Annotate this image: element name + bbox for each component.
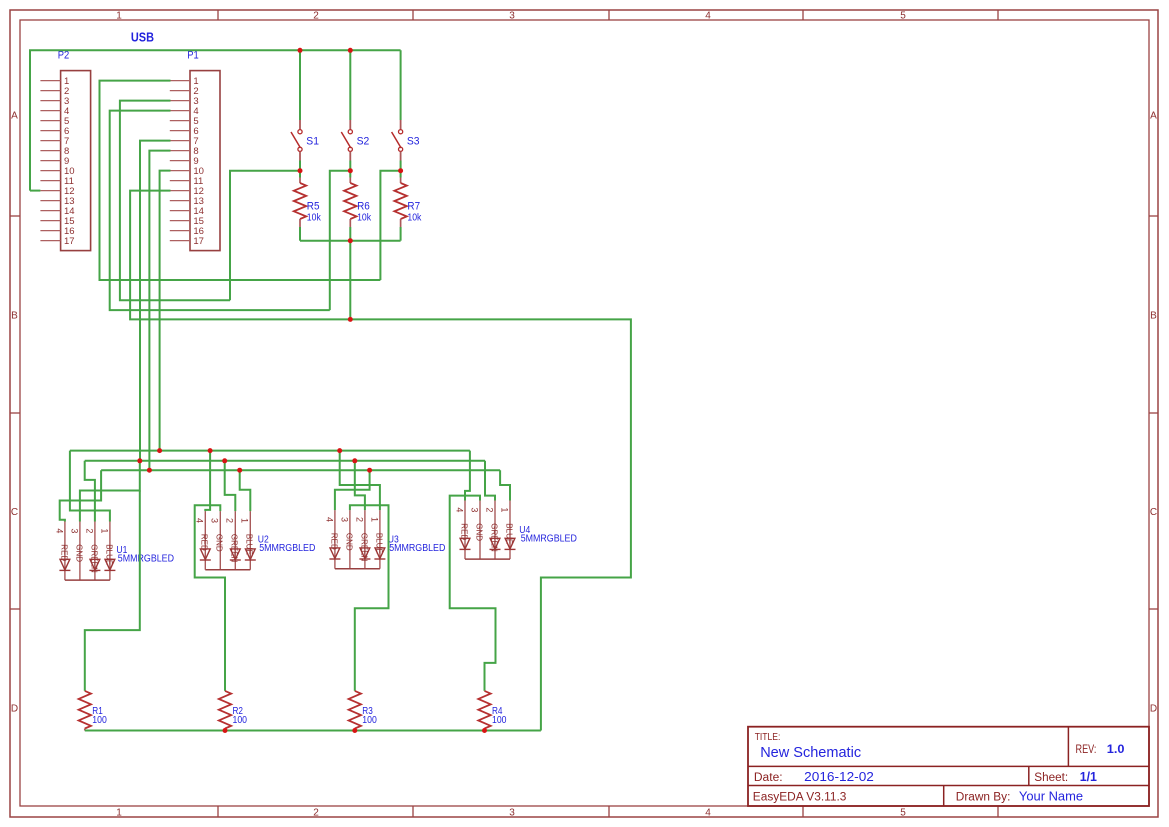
resistor R2 100 (219, 691, 247, 731)
svg-text:4: 4 (705, 11, 711, 22)
connector P2 (40, 49, 90, 250)
frame column ticks bottom (217, 806, 219, 817)
RGB LED U1 5MMRGBLED (54, 522, 174, 581)
svg-text:10k: 10k (357, 211, 372, 223)
wire P1.1 to S3 net (100, 81, 381, 280)
junction S2/R6 node (348, 168, 353, 173)
junction L2 / U3 drop (352, 458, 357, 463)
junction R2 bottom (223, 728, 228, 733)
svg-text:5: 5 (900, 11, 906, 22)
svg-text:D: D (1150, 704, 1157, 715)
svg-text:2: 2 (354, 517, 364, 522)
wire L1 to U1 BLUE pin1 (70, 451, 110, 522)
resistor R4 100 (478, 691, 506, 731)
svg-text:10k: 10k (407, 211, 422, 223)
resistor R5 10k (294, 178, 322, 228)
svg-text:C: C (11, 507, 18, 518)
junction S1/R5 node (298, 168, 303, 173)
junction R6 bottom (348, 238, 353, 243)
junction S3/R7 node (398, 168, 403, 173)
svg-text:GND: GND (215, 534, 224, 552)
wire R bus down to ground route (349, 241, 351, 320)
wire P1.10 down to bus L1 (160, 171, 171, 451)
wire L2 to U3 GREEN pin2 (355, 461, 365, 510)
wire S3 top column (400, 50, 402, 120)
svg-text:5MMRGBLED: 5MMRGBLED (521, 534, 577, 545)
RGB LED U4 5MMRGBLED (454, 501, 577, 560)
wire S3 to junction (400, 161, 402, 178)
svg-text:GND: GND (474, 523, 483, 541)
junction top bus / S1 (298, 48, 303, 53)
resistor R7 10k (394, 178, 422, 228)
wire U4 GND pin3 down to R4 (450, 496, 496, 691)
svg-text:2: 2 (313, 808, 319, 819)
svg-text:4: 4 (454, 507, 464, 512)
svg-text:4: 4 (195, 518, 205, 523)
svg-text:4: 4 (705, 808, 711, 819)
svg-text:3: 3 (509, 808, 515, 819)
svg-text:100: 100 (92, 714, 107, 726)
svg-text:1/1: 1/1 (1080, 770, 1097, 784)
wire S2 top column (349, 50, 351, 120)
junction L1 / U2 drop (208, 448, 213, 453)
svg-text:4: 4 (54, 528, 64, 533)
wire into P2 pin 12 (30, 190, 40, 192)
wire P1.12 ground loop right side (130, 191, 631, 731)
svg-text:100: 100 (492, 714, 507, 726)
svg-text:Drawn By:: Drawn By: (956, 792, 1011, 804)
wire U3 GND pin3 down to R3 (350, 505, 389, 691)
wire S3 junction left stub down (380, 171, 400, 280)
wire L3 to U2 BLUE pin1 (240, 470, 251, 511)
wire L2 to U4 GREEN pin2 (485, 461, 495, 501)
svg-text:1.0: 1.0 (1107, 742, 1125, 756)
wire bus L1 (70, 450, 470, 452)
junction R4 bottom (482, 728, 487, 733)
wire U1 GND pin3 from L2 node (80, 461, 140, 522)
svg-text:TITLE:: TITLE: (755, 732, 781, 743)
svg-text:A: A (11, 111, 18, 122)
svg-text:S2: S2 (357, 136, 370, 148)
svg-text:10k: 10k (307, 211, 322, 223)
svg-text:GND: GND (74, 544, 83, 562)
junction L1 / P1.10 (157, 448, 162, 453)
svg-text:3: 3 (69, 528, 79, 533)
svg-text:1: 1 (369, 517, 379, 522)
wire S1 top column (299, 50, 301, 120)
wire L2 to U1 GREEN pin2 (85, 461, 95, 522)
resistor R3 100 (349, 691, 377, 731)
svg-text:A: A (1150, 111, 1157, 122)
svg-text:Sheet:: Sheet: (1034, 772, 1068, 784)
svg-text:1: 1 (116, 808, 122, 819)
wire R6 bottom (349, 227, 351, 241)
junction L2 / P1.7 (137, 458, 142, 463)
junction R3 bottom (352, 728, 357, 733)
junction ground route / R bus (348, 317, 353, 322)
svg-text:100: 100 (233, 714, 248, 726)
wire S1 junction left stub down (230, 171, 300, 301)
title block (748, 727, 1149, 806)
wire bottom ground bus (85, 730, 541, 732)
svg-text:S1: S1 (306, 136, 319, 148)
svg-text:5MMRGBLED: 5MMRGBLED (259, 543, 315, 554)
wire P1.7 down to bus L2 (140, 141, 171, 461)
svg-text:1: 1 (240, 518, 250, 523)
resistor R6 10k (344, 178, 372, 228)
wire P1.3 to S1 net (120, 101, 230, 301)
wire bus L3 (101, 469, 500, 471)
svg-text:B: B (11, 311, 18, 322)
svg-text:C: C (1150, 507, 1157, 518)
svg-text:2: 2 (484, 507, 494, 512)
svg-text:EasyEDA V3.11.3: EasyEDA V3.11.3 (753, 792, 847, 804)
wire bus L2 (85, 460, 485, 462)
wire P1.4 to S2 net (110, 111, 330, 311)
svg-text:D: D (11, 704, 18, 715)
wire R7 bottom (400, 227, 402, 241)
switch S1 (291, 120, 319, 161)
RGB LED U2 5MMRGBLED (195, 511, 316, 570)
wire L3 to U3 RED pin4 (335, 470, 370, 510)
svg-text:USB: USB (131, 30, 154, 44)
svg-text:17: 17 (64, 236, 75, 247)
svg-text:B: B (1150, 311, 1157, 322)
wire S2 to junction (349, 161, 351, 178)
RGB LED U3 5MMRGBLED (324, 510, 445, 569)
wire L2 to U2 GREEN pin2 (225, 461, 236, 511)
svg-text:17: 17 (193, 236, 204, 247)
wire U2 GND pin3 down to R2 (195, 505, 225, 691)
wire L3 to U1 RED pin4 (60, 470, 101, 521)
svg-text:5MMRGBLED: 5MMRGBLED (389, 543, 445, 554)
svg-text:1: 1 (499, 507, 509, 512)
svg-text:100: 100 (362, 714, 377, 726)
svg-text:3: 3 (509, 11, 515, 22)
wire L1 to U2 RED pin4 (205, 451, 210, 512)
svg-text:Date:: Date: (754, 772, 783, 784)
junction L3 / U2 drop (237, 468, 242, 473)
svg-text:3: 3 (469, 507, 479, 512)
frame row ticks right (1149, 215, 1158, 217)
wire L1 to U4 RED pin4 (465, 451, 470, 501)
svg-text:1: 1 (99, 528, 109, 533)
wire L1 to U3 BLUE pin1 (340, 451, 380, 511)
wire L3 to U4 BLUE pin1 (500, 470, 510, 500)
svg-text:GND: GND (344, 533, 353, 551)
svg-text:2: 2 (313, 11, 319, 22)
wire U1 GND drop to R1 (85, 491, 140, 691)
junction L3 / U3 drop (367, 468, 372, 473)
switch S3 (392, 120, 420, 161)
junction L3 / P1.8 (147, 468, 152, 473)
junction L1 / U3 drop (337, 448, 342, 453)
wire P1.8 down to bus L3 (149, 151, 170, 471)
svg-text:2: 2 (84, 528, 94, 533)
wire S1 to junction (299, 161, 301, 178)
svg-text:3: 3 (339, 517, 349, 522)
wire S2 junction left stub down (330, 171, 351, 310)
svg-text:New Schematic: New Schematic (760, 745, 861, 761)
junction L2 / U2 drop (222, 458, 227, 463)
frame column ticks top (217, 10, 219, 20)
frame row ticks left (10, 215, 20, 217)
wire P2.12 up and top bus to switches (30, 50, 401, 190)
connector P1 (170, 49, 220, 250)
junction top bus / S2 (348, 48, 353, 53)
svg-text:5: 5 (900, 808, 906, 819)
resistor R1 100 (79, 691, 107, 731)
switch S2 (341, 120, 369, 161)
wire resistor bottom bus R5-R7 (300, 240, 401, 242)
svg-text:S3: S3 (407, 136, 420, 148)
svg-text:3: 3 (210, 518, 220, 523)
svg-text:5MMRGBLED: 5MMRGBLED (118, 554, 174, 565)
svg-text:2016-12-02: 2016-12-02 (804, 770, 874, 784)
svg-text:REV:: REV: (1076, 744, 1097, 756)
svg-text:2: 2 (225, 518, 235, 523)
svg-text:Your Name: Your Name (1019, 788, 1083, 803)
svg-text:4: 4 (324, 517, 334, 522)
wire R5 bottom (299, 227, 301, 241)
svg-text:1: 1 (116, 11, 122, 22)
